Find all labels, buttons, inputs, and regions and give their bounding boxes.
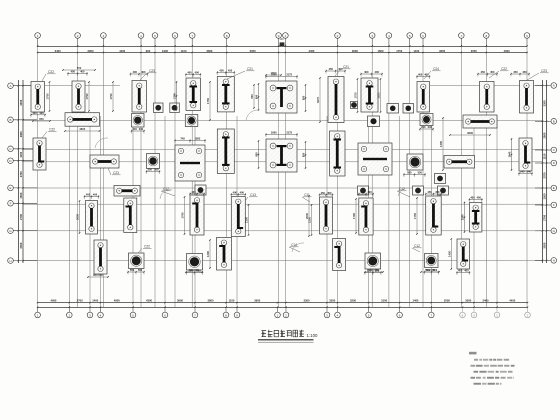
svg-text:E: E bbox=[553, 186, 555, 190]
bottom grid bubble 18 bbox=[473, 307, 475, 312]
bottom grid bubble 9 bbox=[236, 307, 238, 312]
wall column GBZ18 bbox=[519, 138, 532, 171]
dimension mark bbox=[231, 191, 246, 198]
svg-text:550: 550 bbox=[418, 171, 423, 175]
svg-text:1300: 1300 bbox=[439, 141, 443, 147]
svg-text:450: 450 bbox=[327, 191, 332, 195]
bottom dimension band bbox=[38, 302, 527, 304]
dimension bbox=[85, 81, 90, 112]
svg-text:4950: 4950 bbox=[50, 298, 56, 302]
svg-text:3800: 3800 bbox=[208, 298, 214, 302]
right dimension band bbox=[542, 80, 544, 263]
svg-text:3000: 3000 bbox=[465, 298, 471, 302]
leader arc bbox=[398, 188, 409, 196]
column AZ3 bbox=[185, 115, 198, 127]
dimension bbox=[185, 268, 203, 273]
right grid bubble C bbox=[551, 147, 557, 153]
svg-text:3900: 3900 bbox=[177, 298, 183, 302]
svg-text:550: 550 bbox=[130, 268, 135, 272]
svg-text:240: 240 bbox=[139, 127, 144, 131]
dimension mark bbox=[84, 193, 99, 200]
wall column GBZ1 bbox=[31, 82, 45, 113]
svg-text:450: 450 bbox=[338, 67, 343, 71]
leader arc bbox=[95, 138, 108, 148]
svg-text:400: 400 bbox=[80, 70, 85, 74]
svg-text:400: 400 bbox=[187, 71, 192, 75]
top grid bubble 10 bbox=[283, 33, 289, 39]
svg-text:3300: 3300 bbox=[19, 242, 23, 248]
top grid bubble 11 bbox=[335, 33, 341, 39]
svg-text:1450: 1450 bbox=[447, 251, 451, 257]
label C24 bbox=[424, 67, 441, 79]
label C14 bbox=[289, 243, 300, 252]
dimension bbox=[206, 81, 211, 121]
dimension bbox=[449, 131, 491, 136]
dimension mark bbox=[302, 84, 307, 111]
svg-text:450: 450 bbox=[513, 70, 518, 74]
bottom grid bubble 14 bbox=[368, 307, 370, 312]
dimension bbox=[62, 66, 96, 71]
dimension mark bbox=[510, 70, 529, 77]
dimension bbox=[206, 239, 211, 269]
svg-text:3050: 3050 bbox=[439, 49, 445, 53]
column AZ4 bbox=[387, 104, 399, 114]
dimension mark bbox=[419, 125, 433, 132]
column AZ6 bbox=[420, 114, 433, 126]
svg-text:1500: 1500 bbox=[543, 193, 547, 199]
wall column GBZ11 bbox=[361, 78, 378, 112]
svg-text:B: B bbox=[553, 120, 555, 124]
svg-text:550: 550 bbox=[148, 168, 153, 172]
svg-text:550: 550 bbox=[426, 268, 431, 272]
wall column GBZ10 bbox=[328, 77, 344, 123]
svg-text:3300: 3300 bbox=[543, 100, 547, 106]
label C21 bbox=[227, 67, 255, 79]
svg-text:3900: 3900 bbox=[254, 298, 260, 302]
wall column GBZ26 bbox=[320, 197, 333, 234]
svg-text:1750: 1750 bbox=[413, 213, 417, 219]
bottom grid bubble 13 bbox=[337, 307, 339, 312]
svg-text:1640: 1640 bbox=[508, 151, 512, 157]
svg-text:E: E bbox=[9, 186, 11, 190]
svg-text:900: 900 bbox=[146, 49, 151, 53]
svg-text:3400: 3400 bbox=[55, 49, 61, 53]
wall column GBZ19 bbox=[86, 201, 98, 235]
label C23 bbox=[140, 69, 157, 80]
wall column GBZ28 bbox=[359, 198, 373, 235]
dimension mark bbox=[255, 83, 260, 110]
wall column GBZ21 bbox=[124, 198, 137, 233]
wall column GBZ12 bbox=[417, 82, 430, 113]
svg-text:240: 240 bbox=[132, 127, 137, 131]
dimension bbox=[109, 81, 114, 112]
right grid bubble B bbox=[551, 119, 557, 125]
svg-text:450: 450 bbox=[481, 70, 486, 74]
svg-text:748: 748 bbox=[180, 137, 185, 141]
svg-text:1790: 1790 bbox=[352, 213, 356, 219]
svg-text:1900: 1900 bbox=[162, 49, 168, 53]
dimension bbox=[245, 204, 250, 236]
wall column GBZ30 bbox=[469, 203, 482, 233]
svg-text:A: A bbox=[553, 84, 555, 88]
wall column GBZ13 bbox=[330, 131, 346, 176]
dimension bbox=[308, 204, 313, 236]
dimension bbox=[377, 78, 382, 113]
svg-text:1600: 1600 bbox=[271, 131, 277, 135]
dimension mark bbox=[130, 70, 148, 77]
label C21 bbox=[335, 65, 351, 76]
dimension mark bbox=[67, 70, 87, 77]
svg-text:C21: C21 bbox=[343, 65, 349, 69]
svg-text:1150: 1150 bbox=[543, 153, 547, 159]
wall column GBZ29 bbox=[426, 196, 442, 235]
svg-text:1:100: 1:100 bbox=[307, 333, 319, 338]
svg-text:A: A bbox=[9, 84, 11, 88]
dimension mark bbox=[265, 131, 297, 138]
right grid bubble A bbox=[551, 83, 557, 89]
bottom grid bubble 5 bbox=[132, 307, 134, 312]
svg-text:1100: 1100 bbox=[181, 49, 187, 53]
svg-text:C13: C13 bbox=[250, 193, 256, 197]
svg-text:400: 400 bbox=[86, 193, 91, 197]
svg-text:450: 450 bbox=[522, 70, 527, 74]
svg-text:1100: 1100 bbox=[413, 49, 419, 53]
horizontal grid lines bbox=[23, 120, 543, 122]
svg-text:240: 240 bbox=[520, 170, 525, 174]
wall column GBZ5 bbox=[33, 138, 46, 170]
svg-text:1825: 1825 bbox=[377, 92, 381, 98]
top grid bubble 3 bbox=[101, 33, 107, 39]
column AZ11 bbox=[438, 186, 449, 195]
column AZ10 bbox=[413, 186, 424, 195]
svg-text:C22: C22 bbox=[501, 67, 507, 71]
top grid bubble 18 bbox=[524, 33, 530, 39]
svg-text:550: 550 bbox=[433, 268, 438, 272]
svg-text:1750: 1750 bbox=[396, 49, 402, 53]
svg-text:400: 400 bbox=[477, 196, 482, 200]
dimension mark bbox=[302, 141, 307, 168]
top grid bubble 13 bbox=[386, 33, 392, 39]
column YBZ1 bbox=[147, 154, 160, 169]
wall column GBZ22 bbox=[94, 240, 107, 274]
bottom grid bubble 3 bbox=[89, 307, 91, 312]
svg-text:3000: 3000 bbox=[352, 49, 358, 53]
svg-text:2700: 2700 bbox=[543, 214, 547, 220]
dimension mark bbox=[416, 73, 430, 80]
leader arc bbox=[292, 243, 304, 252]
column YBZ2 bbox=[407, 154, 423, 170]
svg-text:3300: 3300 bbox=[19, 99, 23, 105]
dimension bbox=[181, 196, 186, 235]
svg-text:400: 400 bbox=[458, 269, 463, 273]
svg-text:450: 450 bbox=[228, 69, 233, 73]
svg-text:4000: 4000 bbox=[504, 49, 510, 53]
bottom grid bubble 15 bbox=[399, 307, 401, 312]
dimension mark bbox=[146, 168, 160, 175]
top grid bubble 9 bbox=[276, 33, 282, 39]
svg-text:1400: 1400 bbox=[412, 298, 418, 302]
top grid bubble 2 bbox=[75, 33, 81, 39]
dimension bbox=[439, 117, 444, 171]
svg-text:1600: 1600 bbox=[271, 73, 277, 77]
dimension mark bbox=[255, 140, 260, 168]
expansion joint mark bbox=[280, 42, 285, 46]
top grid bubble 7 bbox=[189, 33, 195, 39]
svg-text:450: 450 bbox=[490, 70, 495, 74]
dimension bbox=[46, 81, 51, 112]
wall column GBZ9 bbox=[217, 129, 234, 173]
dimension bbox=[64, 127, 100, 132]
column AZ13 bbox=[351, 102, 358, 109]
svg-text:550: 550 bbox=[188, 269, 193, 273]
svg-text:950: 950 bbox=[302, 95, 306, 100]
wall column GBZ3 bbox=[132, 81, 147, 113]
svg-text:950: 950 bbox=[255, 94, 259, 99]
svg-text:3100: 3100 bbox=[381, 298, 387, 302]
svg-text:1790: 1790 bbox=[46, 93, 50, 99]
left grid bubble E bbox=[8, 185, 14, 191]
right grid bubble G bbox=[551, 228, 557, 234]
right grid bubble E bbox=[551, 185, 557, 191]
wall column GBZ24 bbox=[231, 197, 245, 237]
svg-text:2950: 2950 bbox=[88, 49, 94, 53]
svg-text:C22: C22 bbox=[49, 128, 55, 132]
bottom grid bubble 17 bbox=[462, 307, 464, 312]
bottom grid bubble 20 bbox=[527, 307, 529, 312]
dimension mark bbox=[456, 269, 470, 276]
leader arc bbox=[160, 190, 172, 199]
svg-text:550: 550 bbox=[196, 269, 201, 273]
bottom grid bubble 1 bbox=[37, 307, 39, 312]
frame column KZ2 bbox=[175, 145, 205, 181]
svg-text:2700: 2700 bbox=[77, 298, 83, 302]
wall column GBZ20 bbox=[114, 186, 140, 197]
svg-text:4450: 4450 bbox=[308, 49, 314, 53]
svg-text:C23: C23 bbox=[149, 69, 155, 73]
bottom grid bubble 4 bbox=[100, 307, 102, 312]
title underline bbox=[258, 339, 314, 341]
title: scribble CJK (shear wall column layout plan) 1:100 bbox=[262, 330, 304, 337]
svg-text:400: 400 bbox=[141, 70, 146, 74]
dimension mark bbox=[325, 67, 345, 74]
label C22 bbox=[42, 128, 57, 139]
wall column GBZ15 bbox=[520, 81, 534, 114]
bottom grid bubble 7 bbox=[194, 307, 196, 312]
svg-text:240: 240 bbox=[428, 125, 433, 129]
svg-text:2700: 2700 bbox=[19, 171, 23, 177]
dimension mark bbox=[217, 69, 235, 76]
svg-text:550: 550 bbox=[154, 168, 159, 172]
dimension mark bbox=[364, 269, 381, 276]
svg-text:F: F bbox=[553, 203, 555, 207]
wall column GBZ23 bbox=[190, 195, 204, 235]
svg-text:3200: 3200 bbox=[329, 298, 335, 302]
dimension mark bbox=[403, 171, 425, 178]
wall column GBZ31 bbox=[457, 239, 470, 269]
top grid bubble 6 bbox=[172, 33, 178, 39]
svg-text:B: B bbox=[9, 118, 11, 122]
svg-text:2050: 2050 bbox=[471, 49, 477, 53]
dimension mark bbox=[186, 269, 203, 276]
label C23 bbox=[108, 168, 121, 175]
top grid bubble 16 bbox=[459, 33, 465, 39]
wall column GBZ4 bbox=[65, 113, 100, 127]
svg-text:2150: 2150 bbox=[245, 217, 249, 223]
top grid bubble 15 bbox=[420, 33, 426, 39]
top dimension band bbox=[38, 46, 527, 48]
svg-text:C22: C22 bbox=[48, 70, 54, 74]
dimension mark bbox=[360, 70, 382, 77]
top grid bubble 1 bbox=[35, 33, 41, 39]
svg-text:2900: 2900 bbox=[19, 131, 23, 137]
svg-text:450: 450 bbox=[329, 67, 334, 71]
dimension mark bbox=[127, 268, 144, 275]
svg-text:4400: 4400 bbox=[119, 49, 125, 53]
wall column GBZ25 bbox=[217, 238, 232, 271]
bottom grid bubble 2 bbox=[68, 307, 70, 312]
svg-text:3200: 3200 bbox=[350, 298, 356, 302]
column AZ1c bbox=[170, 103, 180, 113]
svg-text:4800: 4800 bbox=[114, 298, 120, 302]
label C22 bbox=[42, 70, 56, 81]
svg-text:850 850: 850 850 bbox=[93, 273, 103, 277]
svg-text:400: 400 bbox=[367, 190, 372, 194]
dimension mark bbox=[508, 138, 513, 170]
dimension mark bbox=[319, 191, 333, 198]
svg-text:H: H bbox=[553, 259, 555, 263]
bottom grid bubble 11 bbox=[285, 307, 287, 312]
dimension mark bbox=[461, 202, 466, 233]
dimension mark bbox=[477, 70, 497, 77]
bottom grid bubble 8 bbox=[225, 307, 227, 312]
dimension bbox=[87, 273, 109, 278]
svg-text:550: 550 bbox=[375, 269, 380, 273]
svg-text:4800: 4800 bbox=[467, 131, 473, 135]
frame column KZ4 bbox=[358, 143, 392, 175]
wall column GBZ27 bbox=[333, 239, 346, 271]
svg-text:1750: 1750 bbox=[206, 98, 210, 104]
svg-text:1790: 1790 bbox=[109, 93, 113, 99]
svg-text:2700: 2700 bbox=[19, 214, 23, 220]
label C13 bbox=[245, 193, 258, 201]
vertical grid lines bbox=[37, 46, 39, 307]
svg-text:950: 950 bbox=[255, 152, 259, 157]
svg-text:3300: 3300 bbox=[543, 242, 547, 248]
svg-text:2030: 2030 bbox=[76, 214, 80, 220]
dimension bbox=[420, 268, 440, 273]
svg-text:H: H bbox=[9, 259, 11, 263]
column YBZ4 bbox=[187, 254, 203, 271]
svg-text:C23: C23 bbox=[541, 69, 547, 73]
svg-text:C11: C11 bbox=[304, 193, 310, 197]
svg-text:C21: C21 bbox=[247, 67, 253, 71]
dimension bbox=[364, 268, 384, 273]
wall column GBZ2 bbox=[72, 81, 85, 112]
svg-text:3600: 3600 bbox=[206, 49, 212, 53]
svg-text:5050: 5050 bbox=[250, 49, 256, 53]
top grid bubble 8 bbox=[224, 33, 230, 39]
svg-text:450: 450 bbox=[435, 190, 440, 194]
dimension mark bbox=[173, 81, 178, 110]
bottom grid bubble 6 bbox=[164, 307, 166, 312]
wall column GBZ14 bbox=[480, 82, 495, 113]
column AZ1 bbox=[132, 114, 145, 128]
dimension bbox=[354, 78, 359, 113]
svg-text:C24: C24 bbox=[433, 67, 439, 71]
svg-text:1150: 1150 bbox=[19, 151, 23, 157]
top grid bubble 5 bbox=[152, 33, 158, 39]
svg-text:400: 400 bbox=[39, 111, 44, 115]
label C22 bbox=[489, 67, 509, 78]
left grid bubble G bbox=[8, 228, 14, 234]
label C12 bbox=[412, 244, 422, 252]
svg-text:1790: 1790 bbox=[85, 93, 89, 99]
dimension mark bbox=[189, 190, 204, 197]
wall column GBZ17 bbox=[444, 156, 475, 169]
column YBZ3 bbox=[129, 253, 145, 269]
frame column KZ3 bbox=[266, 139, 297, 172]
svg-text:950: 950 bbox=[302, 152, 306, 157]
svg-text:400: 400 bbox=[93, 193, 98, 197]
label C12 bbox=[397, 187, 410, 197]
label C23 bbox=[527, 69, 549, 80]
bottom grid bubble 12 bbox=[326, 307, 328, 312]
svg-text:400: 400 bbox=[360, 190, 365, 194]
svg-text:550: 550 bbox=[138, 268, 143, 272]
svg-text:2175: 2175 bbox=[286, 73, 292, 77]
frame column KZ1 bbox=[266, 81, 297, 113]
left grid bubble F bbox=[8, 201, 14, 207]
svg-text:1790: 1790 bbox=[181, 212, 185, 218]
svg-text:C22: C22 bbox=[144, 245, 150, 249]
wall column GBZ7 bbox=[186, 78, 201, 111]
svg-text:1852: 1852 bbox=[195, 137, 201, 141]
left grid bubble B bbox=[8, 117, 14, 123]
svg-text:1500: 1500 bbox=[19, 192, 23, 198]
dimension bbox=[265, 71, 282, 76]
dimension mark bbox=[174, 137, 205, 144]
left grid bubble A bbox=[8, 83, 14, 89]
column AZ5 bbox=[403, 104, 414, 114]
column AZ12 bbox=[435, 174, 446, 184]
svg-text:1100: 1100 bbox=[229, 298, 235, 302]
svg-text:400: 400 bbox=[464, 269, 469, 273]
svg-text:400: 400 bbox=[71, 70, 76, 74]
svg-text:4400: 4400 bbox=[509, 298, 515, 302]
svg-text:950: 950 bbox=[250, 94, 254, 99]
top grid bubble 14 bbox=[407, 33, 413, 39]
bottom grid bubble 10 bbox=[277, 307, 279, 312]
svg-text:1600: 1600 bbox=[378, 49, 384, 53]
svg-text:400: 400 bbox=[32, 111, 37, 115]
label C22 bbox=[138, 245, 152, 254]
svg-text:4300: 4300 bbox=[146, 298, 152, 302]
svg-text:3300: 3300 bbox=[304, 298, 310, 302]
dimension mark bbox=[518, 170, 532, 177]
svg-text:C12: C12 bbox=[399, 187, 405, 191]
svg-text:550: 550 bbox=[407, 171, 412, 175]
dimension mark bbox=[30, 111, 45, 118]
dimension bbox=[250, 84, 255, 109]
svg-text:400: 400 bbox=[240, 191, 245, 195]
svg-text:400: 400 bbox=[133, 70, 138, 74]
bottom grid bubble 16 bbox=[430, 307, 432, 312]
leader arc bbox=[246, 110, 259, 120]
svg-text:2175: 2175 bbox=[286, 131, 292, 135]
svg-text:450: 450 bbox=[219, 69, 224, 73]
dimension mark bbox=[265, 73, 297, 80]
svg-text:1400: 1400 bbox=[92, 298, 98, 302]
